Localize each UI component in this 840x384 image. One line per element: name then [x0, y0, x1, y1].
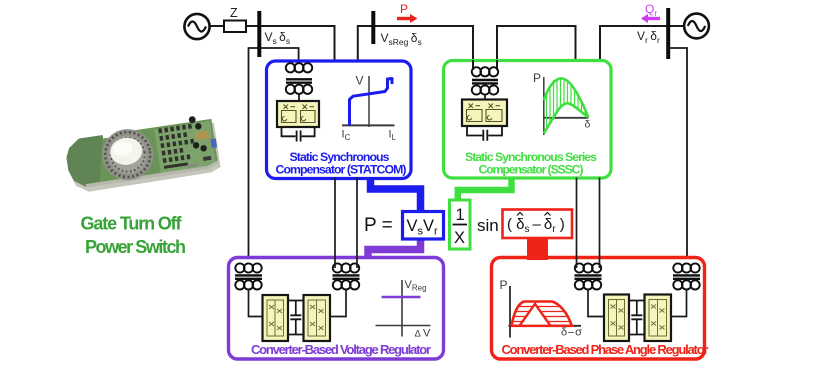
VR converter U3 [263, 295, 289, 341]
STATCOM dc capacitor C1 [282, 127, 315, 142]
svg-text:Gate Turn Off: Gate Turn Off [81, 214, 183, 234]
gold connector [195, 130, 209, 140]
board face shading [154, 121, 216, 175]
wire T3 to converter [588, 289, 604, 316]
notch top [102, 131, 114, 139]
svg-text:VsVr: VsVr [407, 217, 439, 238]
thick green connector [458, 178, 512, 202]
thick blue connector [371, 177, 421, 213]
wire bus Vr shunt tap y48 [667, 48, 687, 265]
GTO white puck [108, 136, 144, 167]
equation blue VsVr box [403, 212, 444, 240]
VR graph [376, 279, 432, 340]
PAR series transformer T3 [575, 263, 602, 289]
svg-text:sin: sin [477, 216, 499, 235]
wire Z to drop x334.5 [246, 25, 336, 27]
SSSC green box [444, 61, 612, 179]
purple box voltage regulator [229, 258, 444, 360]
thick purple connector [368, 238, 421, 259]
svg-text:Δ V: Δ V [415, 328, 432, 340]
generator G2 [684, 14, 709, 39]
board top face [64, 119, 219, 189]
svg-text:P: P [500, 278, 508, 292]
svg-text:δ: δ [585, 119, 591, 131]
bus VsReg [371, 11, 375, 44]
PAR dc link capacitor C4 [629, 301, 645, 335]
svg-text:Z: Z [230, 6, 238, 20]
clamp ring [99, 126, 157, 184]
wire x497 up from green box [497, 26, 576, 60]
wire x334.5 down into blue box top [334, 25, 336, 62]
PAR graph [500, 278, 583, 339]
wire x575.5 down into green box [575, 25, 577, 61]
hats over deltas [517, 213, 551, 216]
PAR converter U5 [604, 295, 629, 342]
small parts right [203, 156, 212, 161]
SSSC dc capacitor C2 [467, 126, 502, 141]
svg-text:X: X [454, 229, 465, 247]
arrow Qr magenta [641, 2, 660, 23]
red box phase angle regulator [492, 258, 705, 360]
SSSC P-delta graph [533, 71, 591, 135]
equation red delta box [503, 210, 573, 239]
equation green 1/X box [450, 200, 471, 249]
VR converter U4 [304, 295, 331, 341]
VR shunt transformer T1 [235, 263, 262, 289]
VR dc link capacitor C3 [288, 301, 304, 335]
capacitors [188, 116, 196, 124]
wire T2 to converter [330, 289, 346, 316]
wire T4 to converter [671, 289, 687, 316]
STATCOM shunt transformer [286, 63, 312, 101]
bus Vs [257, 11, 261, 57]
svg-text:P: P [400, 2, 408, 16]
svg-text:1: 1 [456, 206, 465, 224]
svg-text:Converter-Based Voltage Regula: Converter-Based Voltage Regulator [251, 342, 431, 357]
wire pair below blue box to purple series transformer [335, 178, 357, 269]
svg-text:P =: P = [364, 215, 393, 236]
svg-text:V: V [356, 74, 364, 88]
svg-text:Power Switch: Power Switch [85, 237, 186, 257]
PAR shunt transformer T4 [673, 263, 700, 289]
wire x298.6 down to STATCOM box [298, 47, 300, 63]
SSSC series transformer [472, 67, 498, 99]
wire x357.8 up from blue box top [358, 26, 473, 62]
wire SSSC series right leg [496, 60, 498, 70]
wire bus Vr to gen2 [668, 25, 684, 27]
svg-text:( δs – δr ): ( δs – δr ) [507, 216, 565, 235]
wire shunt tap y48 [249, 47, 299, 49]
wire x248.5 down to purple transformer [248, 47, 250, 265]
wire x600 up from green box [600, 26, 668, 61]
wire gen1 to Z [210, 25, 224, 27]
PAR converter U6 [645, 295, 672, 342]
generator G1 [184, 14, 209, 39]
svg-text:Compensator (STATCOM): Compensator (STATCOM) [276, 163, 407, 177]
WIRES-LAYER [210, 25, 687, 265]
wire pair below green box to red series transformer [577, 178, 600, 269]
VR series transformer T2 [333, 263, 360, 289]
board edge (thickness) [66, 122, 222, 194]
STATCOM blue box [267, 61, 412, 179]
bus Vr [666, 8, 670, 59]
wire SSSC series left leg [472, 60, 474, 70]
wire x473 down into green box [472, 25, 474, 60]
STATCOM converter U1 [277, 101, 319, 127]
svg-text:δ – σ: δ – σ [561, 327, 582, 339]
SSSC converter U2 [462, 100, 507, 127]
wire T1 to converter [249, 289, 263, 316]
svg-text:P: P [533, 71, 541, 85]
component rows [158, 124, 197, 169]
thick red connector bar [527, 237, 548, 260]
impedance Z [224, 21, 246, 33]
photo PCB [63, 113, 221, 194]
svg-text:Vr δr: Vr δr [637, 29, 660, 45]
arrow P red [397, 2, 418, 23]
svg-text:Converter-Based Phase Angle Re: Converter-Based Phase Angle Regulator [502, 342, 709, 357]
blue component [210, 138, 217, 148]
svg-text:Compensator (SSSC): Compensator (SSSC) [479, 163, 584, 177]
STATCOM V-I graph [342, 74, 397, 143]
